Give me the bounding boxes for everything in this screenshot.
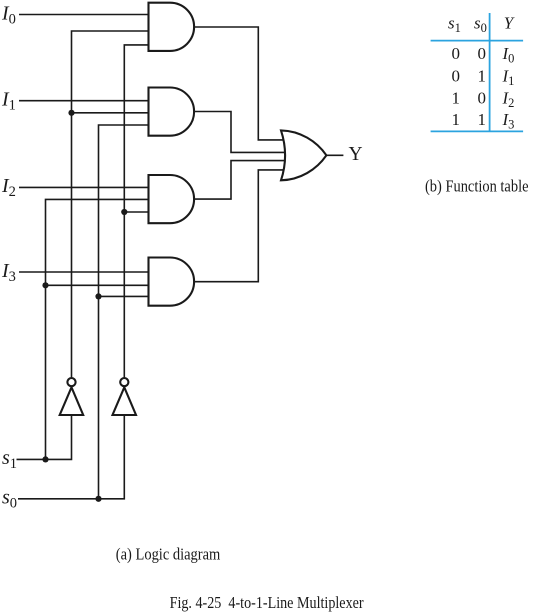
svg-text:Y: Y: [349, 144, 363, 165]
svg-text:0: 0: [452, 66, 461, 85]
AND gate A3: [149, 175, 195, 223]
svg-text:(a) Logic diagram: (a) Logic diagram: [116, 545, 221, 564]
AND gate A4: [149, 258, 195, 306]
table vertical rule: [489, 13, 491, 131]
wire net s1 column (to AND A3 input 2): [46, 199, 149, 459]
wire AND A4 output to OR gate input 4: [194, 170, 284, 282]
inverter U1 bubble: [67, 378, 75, 386]
wire I2 input: [19, 186, 149, 188]
svg-text:(b) Function table: (b) Function table: [425, 177, 529, 196]
function table lines: [431, 13, 523, 131]
svg-text:1: 1: [452, 110, 461, 129]
wire s0 input to inverter U2: [18, 415, 124, 499]
svg-text:1: 1: [452, 89, 461, 108]
svg-text:0: 0: [478, 89, 487, 108]
wire AND A3 output to OR gate input 3: [194, 161, 286, 200]
wire AND A2 output to OR gate input 2: [194, 112, 286, 153]
wire branch s0n to AND A3 input 3: [124, 211, 148, 213]
inverter U2 triangle: [113, 387, 137, 415]
svg-text:Fig. 4-25 4-to-1-Line Multipl: Fig. 4-25 4-to-1-Line Multiplexer: [170, 593, 364, 612]
junction on s1 column at AND A4 input: [42, 282, 48, 288]
wire branch s1n to AND A2 input 2: [72, 112, 149, 114]
junction on s1n column at AND A2 input: [68, 110, 74, 116]
junction on s0 column at AND A4 input: [95, 293, 101, 299]
inverter U1 triangle: [60, 387, 83, 415]
wire net s1n column (inverter U1 output to AND A1 input 2): [72, 31, 149, 378]
junction on s0n column at AND A3 input: [121, 209, 127, 215]
svg-text:0: 0: [452, 44, 461, 63]
svg-text:1: 1: [478, 110, 487, 129]
wire I3 input: [19, 271, 149, 273]
OR gate U3: [281, 130, 326, 180]
junction on s1 wire: [42, 456, 48, 462]
wire branch s1 to AND A4 input 2: [46, 284, 149, 286]
wire OR gate output to Y: [326, 154, 343, 156]
svg-text:Y: Y: [504, 13, 515, 32]
svg-text:1: 1: [478, 66, 487, 85]
AND gate A2: [149, 88, 195, 136]
junction on s0 wire: [95, 496, 101, 502]
wire net s0 column (to AND A2 input 3): [99, 125, 149, 499]
table top horizontal rule: [431, 40, 523, 42]
wire AND A1 output to OR gate input 1: [194, 27, 284, 140]
wire I0 input: [19, 14, 149, 16]
wire s1 input to inverter U1: [17, 415, 72, 459]
table bottom horizontal rule: [431, 130, 523, 132]
wire branch s0 to AND A4 input 3: [99, 295, 149, 297]
svg-text:0: 0: [478, 44, 487, 63]
wire net s0n column (inverter U2 output to AND A1 input 3): [124, 45, 148, 378]
wire I1 input: [19, 100, 149, 102]
AND gate A1: [149, 3, 195, 51]
inverter U2 bubble: [120, 378, 128, 386]
